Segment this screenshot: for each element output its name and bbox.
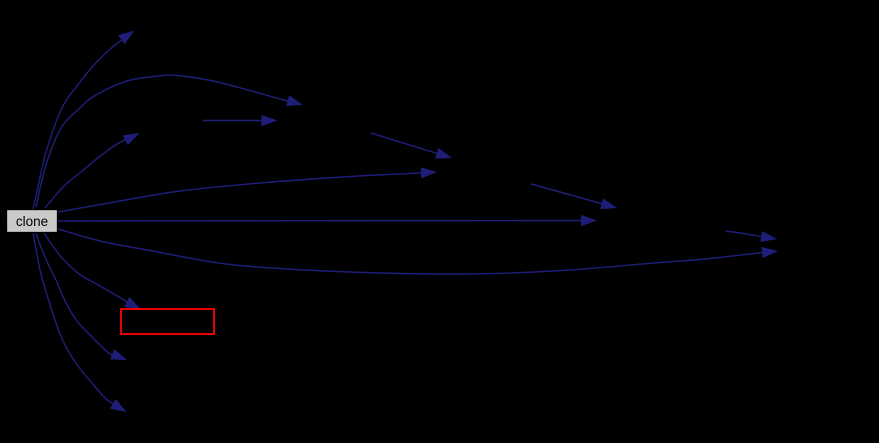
wire edge n5->n6: [371, 133, 452, 159]
wire edge n6->n9: [531, 184, 617, 209]
wire edge clone->n8: [58, 215, 597, 226]
wire edge clone->n3: [45, 133, 140, 208]
node clone (root, grey): [7, 210, 58, 233]
wire edge clone->n12: [33, 233, 127, 412]
wire edge clone->n11: [36, 233, 127, 360]
wire edge clone->n2: [36, 75, 303, 207]
wire edge n9->n10: [726, 231, 777, 242]
wire edge clone->n1: [33, 31, 135, 210]
wire edge clone->n10: [58, 229, 778, 274]
wire edge n4->n5: [203, 115, 278, 126]
svg-text:clone: clone: [16, 214, 48, 229]
wire edge clone->nred: [44, 233, 141, 310]
wire edge clone->n7: [58, 167, 437, 212]
node red (truncated, red border): [121, 309, 214, 334]
